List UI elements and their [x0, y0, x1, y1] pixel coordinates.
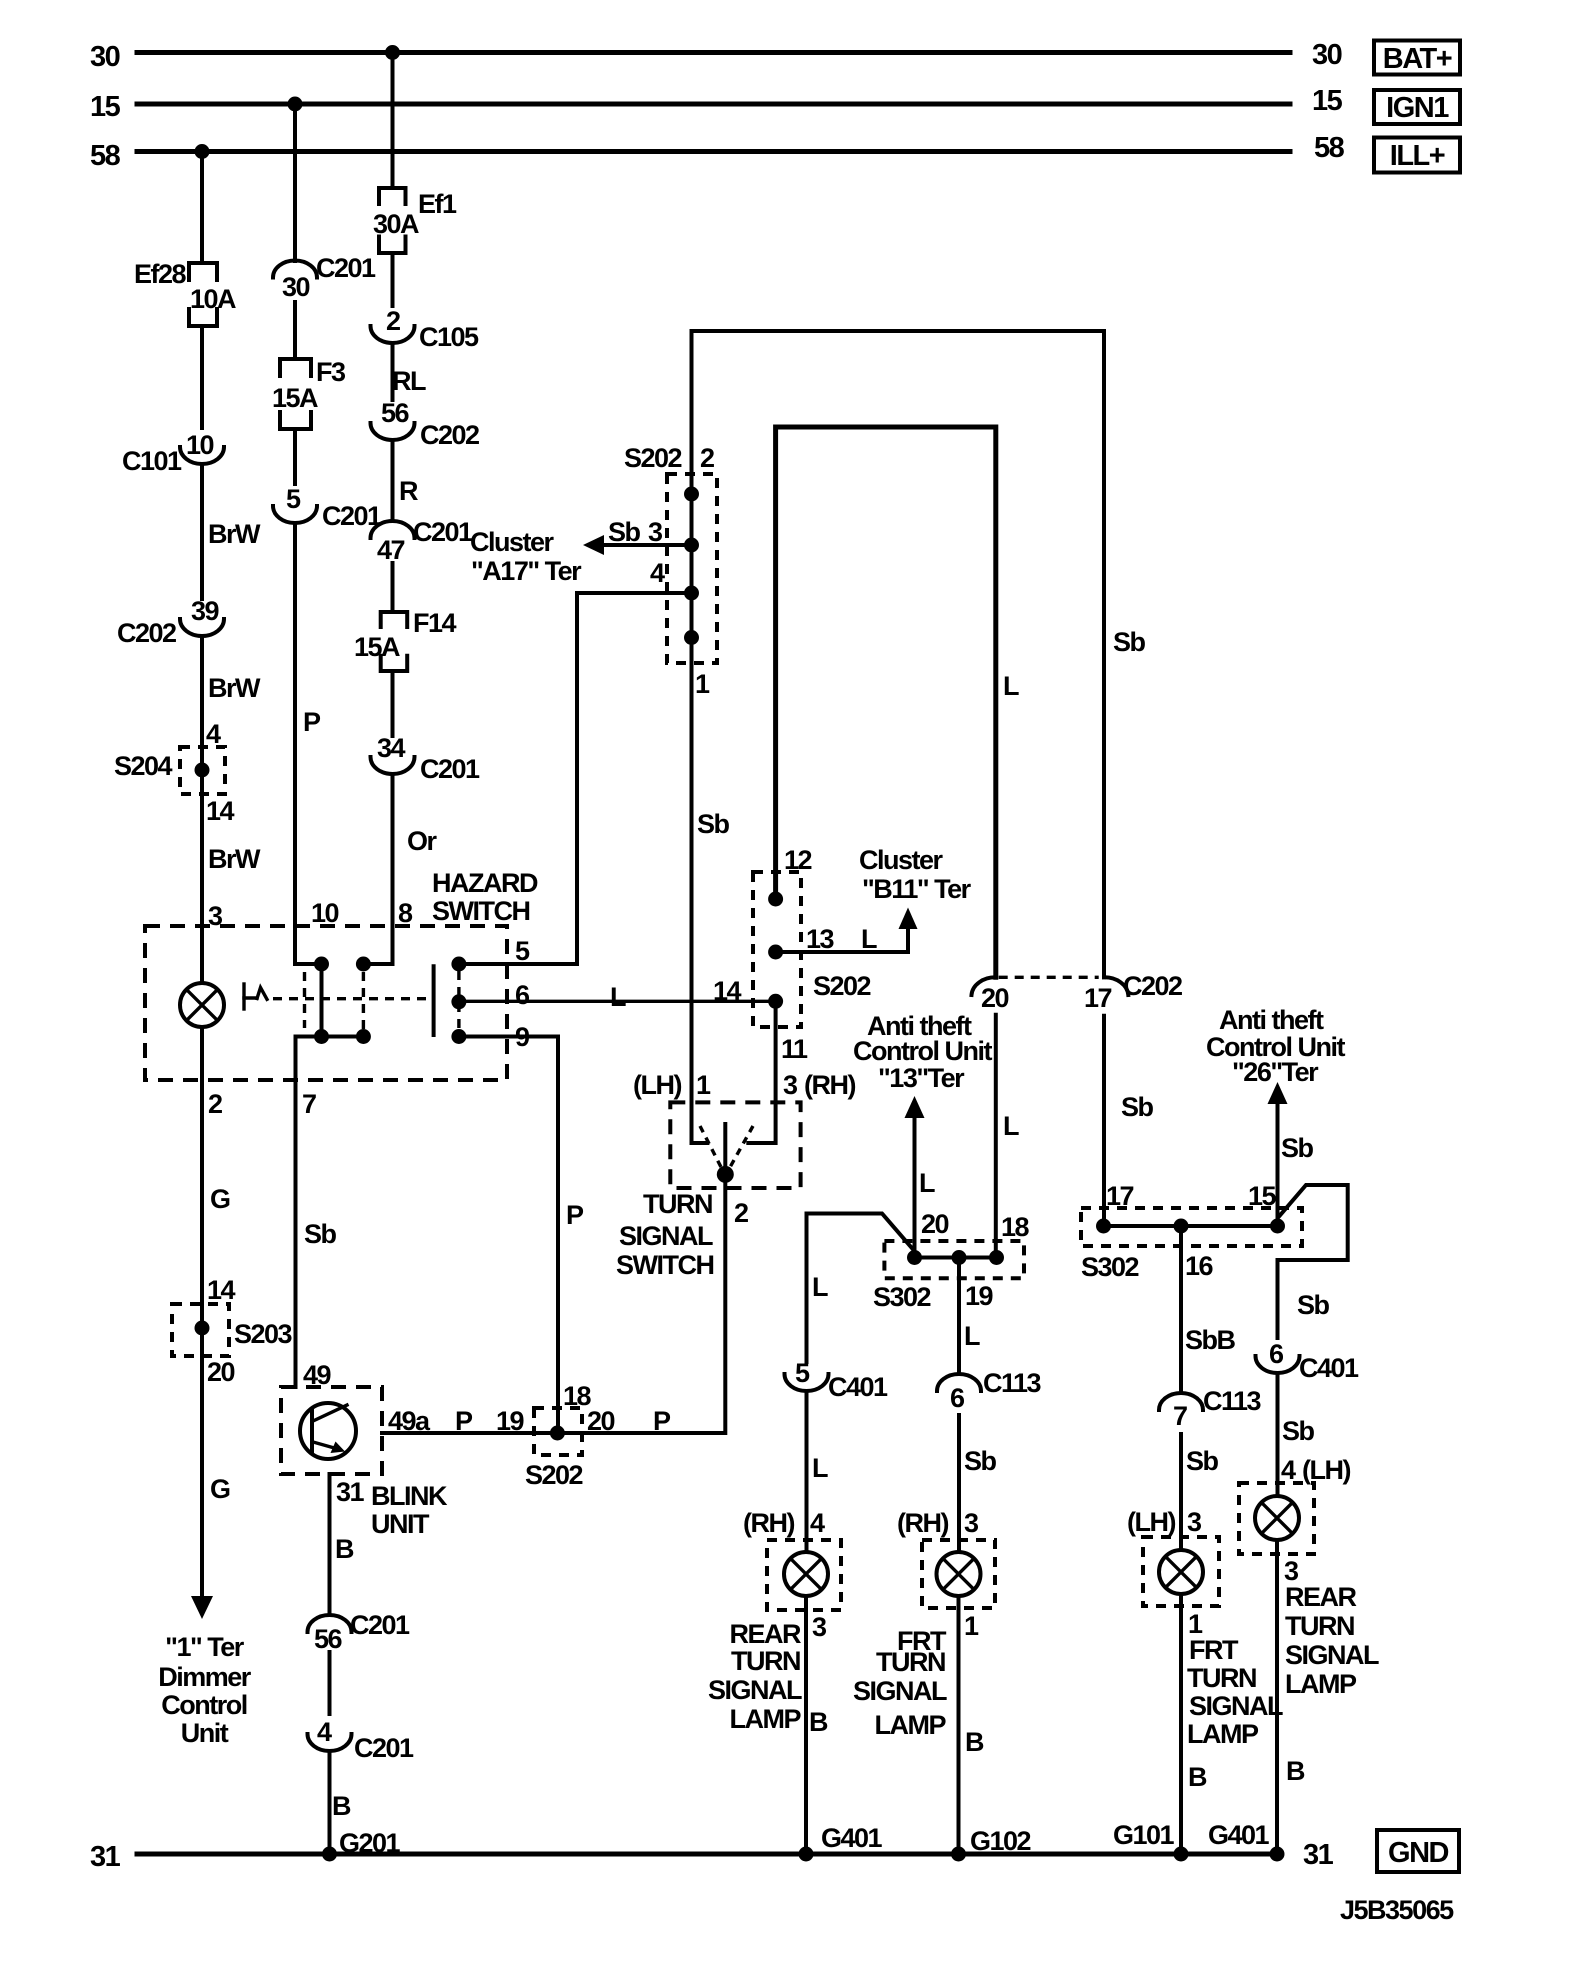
svg-text:R: R [399, 476, 418, 506]
svg-text:2: 2 [734, 1198, 748, 1228]
svg-text:7: 7 [1173, 1401, 1187, 1431]
svg-text:C201: C201 [420, 754, 480, 784]
svg-text:4: 4 [1281, 1455, 1296, 1485]
svg-text:BrW: BrW [208, 673, 261, 703]
svg-text:15: 15 [90, 91, 121, 123]
svg-text:B: B [965, 1727, 984, 1757]
svg-text:S302: S302 [1081, 1252, 1139, 1282]
svg-text:15A: 15A [272, 383, 318, 413]
svg-text:3: 3 [1187, 1507, 1202, 1537]
svg-text:10: 10 [311, 898, 339, 928]
svg-text:L: L [919, 1168, 935, 1198]
svg-text:3: 3 [783, 1070, 798, 1100]
svg-text:Cluster: Cluster [859, 845, 944, 875]
svg-text:3: 3 [812, 1612, 827, 1642]
svg-text:C401: C401 [828, 1372, 888, 1402]
svg-text:C401: C401 [1299, 1353, 1359, 1383]
svg-text:SIGNAL: SIGNAL [708, 1675, 802, 1705]
svg-text:15A: 15A [354, 632, 400, 662]
svg-text:C101: C101 [122, 446, 182, 476]
svg-text:31: 31 [336, 1477, 365, 1507]
svg-text:F3: F3 [316, 357, 346, 387]
svg-text:REAR: REAR [1285, 1582, 1357, 1612]
svg-text:20: 20 [981, 983, 1009, 1013]
svg-text:17: 17 [1106, 1181, 1134, 1211]
svg-text:4: 4 [810, 1508, 825, 1538]
svg-text:47: 47 [377, 535, 405, 565]
svg-text:Sb: Sb [697, 809, 730, 839]
svg-text:14: 14 [713, 976, 742, 1006]
svg-text:(LH): (LH) [1302, 1455, 1350, 1485]
svg-text:C113: C113 [983, 1368, 1042, 1398]
svg-text:30: 30 [282, 272, 310, 302]
svg-text:B: B [332, 1791, 351, 1821]
svg-text:L: L [812, 1453, 828, 1483]
svg-text:B: B [1188, 1762, 1207, 1792]
svg-text:5: 5 [515, 936, 530, 966]
svg-text:HAZARD: HAZARD [432, 868, 538, 898]
svg-text:Ef1: Ef1 [418, 189, 457, 219]
svg-text:"26"Ter: "26"Ter [1232, 1057, 1319, 1087]
svg-text:20: 20 [207, 1357, 235, 1387]
svg-text:3: 3 [648, 517, 663, 547]
svg-text:20: 20 [921, 1209, 949, 1239]
svg-text:14: 14 [207, 1275, 236, 1305]
svg-text:LAMP: LAMP [730, 1704, 802, 1734]
svg-text:5: 5 [795, 1358, 810, 1388]
svg-text:L: L [1003, 1111, 1019, 1141]
svg-text:SIGNAL: SIGNAL [619, 1221, 713, 1251]
svg-text:LAMP: LAMP [875, 1710, 947, 1740]
svg-text:39: 39 [191, 596, 220, 626]
svg-text:C105: C105 [419, 322, 479, 352]
svg-text:L: L [1003, 671, 1019, 701]
svg-text:6: 6 [515, 980, 530, 1010]
svg-text:C202: C202 [1123, 971, 1182, 1001]
svg-text:L: L [861, 924, 877, 954]
svg-text:56: 56 [314, 1624, 343, 1654]
svg-text:4: 4 [650, 558, 665, 588]
svg-text:BLINK: BLINK [371, 1481, 448, 1511]
svg-text:(RH): (RH) [804, 1070, 855, 1100]
svg-text:C201: C201 [354, 1733, 414, 1763]
svg-text:UNIT: UNIT [371, 1509, 430, 1539]
svg-text:3: 3 [964, 1508, 979, 1538]
svg-text:2: 2 [208, 1089, 222, 1119]
svg-text:10A: 10A [190, 284, 236, 314]
svg-text:1: 1 [695, 669, 710, 699]
svg-text:BrW: BrW [208, 844, 261, 874]
svg-text:19: 19 [496, 1406, 525, 1436]
svg-text:14: 14 [206, 796, 235, 826]
svg-text:B: B [809, 1707, 828, 1737]
svg-text:19: 19 [965, 1281, 994, 1311]
svg-text:BAT+: BAT+ [1383, 43, 1452, 75]
svg-text:TURN: TURN [643, 1189, 712, 1219]
svg-text:(LH): (LH) [633, 1070, 681, 1100]
svg-text:C201: C201 [350, 1610, 410, 1640]
svg-text:31: 31 [1303, 1839, 1334, 1871]
svg-text:C202: C202 [117, 618, 176, 648]
svg-text:G101: G101 [1113, 1820, 1175, 1850]
svg-text:31: 31 [90, 1841, 121, 1873]
svg-text:10: 10 [186, 430, 214, 460]
svg-text:17: 17 [1084, 983, 1112, 1013]
svg-text:Sb: Sb [1297, 1290, 1330, 1320]
svg-text:Sb: Sb [608, 517, 641, 547]
svg-text:Sb: Sb [1113, 627, 1146, 657]
svg-text:TURN: TURN [1187, 1663, 1256, 1693]
svg-text:S204: S204 [114, 751, 173, 781]
svg-text:S202: S202 [525, 1460, 583, 1490]
svg-text:SWITCH: SWITCH [432, 896, 529, 926]
svg-text:58: 58 [1314, 132, 1345, 164]
svg-text:5: 5 [286, 484, 301, 514]
svg-text:G: G [210, 1184, 230, 1214]
svg-text:16: 16 [1185, 1251, 1214, 1281]
svg-text:"13"Ter: "13"Ter [878, 1063, 965, 1093]
svg-text:Anti theft: Anti theft [1219, 1005, 1324, 1035]
svg-text:BrW: BrW [208, 519, 261, 549]
svg-text:1: 1 [964, 1611, 979, 1641]
svg-text:TURN: TURN [876, 1647, 945, 1677]
svg-text:SIGNAL: SIGNAL [853, 1676, 947, 1706]
svg-text:TURN: TURN [1285, 1611, 1354, 1641]
svg-text:2: 2 [700, 443, 714, 473]
svg-text:34: 34 [377, 733, 406, 763]
svg-text:49a: 49a [388, 1406, 431, 1436]
svg-text:15: 15 [1312, 85, 1343, 117]
svg-text:L: L [812, 1272, 828, 1302]
svg-text:S302: S302 [873, 1282, 931, 1312]
svg-text:S203: S203 [234, 1319, 293, 1349]
svg-text:RL: RL [392, 366, 426, 396]
svg-text:Sb: Sb [1282, 1416, 1315, 1446]
svg-text:30: 30 [1312, 39, 1342, 71]
svg-text:Sb: Sb [964, 1446, 997, 1476]
svg-text:Unit: Unit [181, 1718, 229, 1748]
svg-text:SbB: SbB [1185, 1325, 1236, 1355]
svg-text:Sb: Sb [1186, 1446, 1219, 1476]
svg-text:4: 4 [317, 1717, 332, 1747]
svg-text:Sb: Sb [1121, 1092, 1154, 1122]
svg-text:L: L [964, 1321, 980, 1351]
svg-text:12: 12 [784, 845, 812, 875]
svg-text:C201: C201 [316, 253, 376, 283]
svg-text:20: 20 [587, 1406, 615, 1436]
svg-text:G401: G401 [1208, 1820, 1270, 1850]
svg-text:C113: C113 [1203, 1386, 1262, 1416]
svg-text:FRT: FRT [1189, 1635, 1239, 1665]
svg-text:SIGNAL: SIGNAL [1285, 1640, 1379, 1670]
svg-text:L: L [610, 982, 626, 1012]
svg-text:J5B35065: J5B35065 [1340, 1895, 1454, 1925]
svg-text:(RH): (RH) [743, 1508, 794, 1538]
svg-text:(RH): (RH) [897, 1508, 948, 1538]
svg-text:ILL+: ILL+ [1390, 140, 1445, 172]
svg-text:30: 30 [90, 41, 120, 73]
svg-text:P: P [566, 1200, 584, 1230]
svg-text:SIGNAL: SIGNAL [1189, 1691, 1283, 1721]
svg-text:7: 7 [302, 1089, 316, 1119]
svg-text:TURN: TURN [731, 1646, 800, 1676]
svg-text:Control Unit: Control Unit [853, 1036, 992, 1066]
svg-text:30A: 30A [373, 209, 419, 239]
svg-text:11: 11 [781, 1034, 808, 1064]
svg-text:P: P [653, 1406, 671, 1436]
svg-text:Ef28: Ef28 [134, 259, 187, 289]
svg-text:Cluster: Cluster [470, 527, 555, 557]
svg-text:REAR: REAR [729, 1619, 801, 1649]
svg-text:G401: G401 [821, 1823, 883, 1853]
svg-text:SWITCH: SWITCH [616, 1250, 713, 1280]
svg-text:6: 6 [1269, 1339, 1284, 1369]
svg-text:Control: Control [161, 1690, 246, 1720]
svg-text:S202: S202 [813, 971, 871, 1001]
svg-text:F14: F14 [413, 608, 457, 638]
svg-text:58: 58 [90, 140, 121, 172]
svg-text:LAMP: LAMP [1187, 1719, 1259, 1749]
svg-text:15: 15 [1248, 1181, 1277, 1211]
svg-text:C201: C201 [413, 517, 473, 547]
svg-text:2: 2 [386, 306, 400, 336]
svg-text:13: 13 [806, 924, 835, 954]
svg-text:4: 4 [206, 719, 221, 749]
svg-text:1: 1 [696, 1070, 711, 1100]
svg-text:IGN1: IGN1 [1386, 92, 1449, 124]
svg-text:G: G [210, 1474, 230, 1504]
svg-text:(LH): (LH) [1127, 1507, 1175, 1537]
svg-text:6: 6 [950, 1383, 965, 1413]
svg-text:B: B [335, 1534, 354, 1564]
svg-text:Sb: Sb [304, 1219, 337, 1249]
svg-text:8: 8 [398, 898, 413, 928]
svg-text:Sb: Sb [1281, 1133, 1314, 1163]
svg-text:18: 18 [1001, 1212, 1030, 1242]
svg-text:GND: GND [1388, 1837, 1449, 1869]
svg-text:C201: C201 [322, 501, 382, 531]
svg-text:"B11" Ter: "B11" Ter [862, 874, 972, 904]
svg-text:S202: S202 [624, 443, 682, 473]
svg-text:P: P [455, 1406, 473, 1436]
svg-text:P: P [303, 707, 321, 737]
svg-text:Or: Or [407, 826, 438, 856]
svg-text:56: 56 [381, 398, 410, 428]
svg-text:"A17" Ter: "A17" Ter [471, 556, 582, 586]
svg-text:C202: C202 [420, 420, 479, 450]
svg-text:Dimmer: Dimmer [158, 1662, 252, 1692]
svg-text:"1" Ter: "1" Ter [165, 1632, 245, 1662]
svg-text:B: B [1286, 1756, 1305, 1786]
svg-text:LAMP: LAMP [1285, 1669, 1357, 1699]
